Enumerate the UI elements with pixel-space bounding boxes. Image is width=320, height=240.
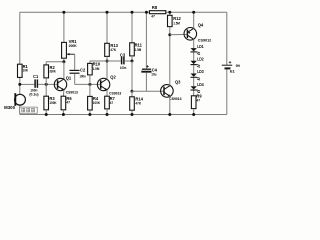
wire right edge lower (battery - to bottom rail) — [226, 69, 228, 114]
resistor R7 — [105, 96, 110, 109]
svg-text:(0.1u): (0.1u) — [29, 91, 39, 96]
wire VR1 wiper down to C2 — [74, 54, 76, 70]
svg-text:R8: R8 — [152, 5, 158, 10]
svg-text:C2: C2 — [80, 68, 86, 73]
svg-text:CS9013: CS9013 — [109, 90, 122, 95]
node C4 top rail — [145, 11, 148, 14]
node mic/R1/C1 junction — [18, 83, 21, 86]
node C3 / R11 — [131, 60, 134, 63]
resistor R3 — [45, 84, 47, 96]
svg-text:Q3: Q3 — [175, 80, 181, 85]
resistor R12 — [169, 12, 171, 15]
wire Q2 collector node to C3 — [90, 60, 121, 62]
node Q2 base / R10 / R4 — [88, 83, 91, 86]
wire top rail left segment — [20, 11, 150, 13]
wire left edge upper (rail to R1) — [19, 12, 21, 64]
wire Q4 emitter to top rail — [193, 12, 195, 28]
node Q3 base / R14 / C4 — [131, 90, 134, 93]
wire right edge upper (to battery +) — [226, 12, 228, 65]
wire Q4 base wire — [170, 33, 188, 35]
wire mic node to C1 — [20, 83, 35, 85]
LED LD2 — [191, 57, 205, 68]
capacitor C2 — [70, 69, 80, 71]
resistor R2 — [45, 62, 47, 65]
resistor R11 — [131, 12, 133, 43]
wire Q3 collector up to R12 node — [169, 35, 171, 86]
svg-text:E1: E1 — [230, 69, 236, 74]
svg-text:LD1: LD1 — [197, 44, 204, 49]
node Q4 emitter top rail — [192, 11, 195, 14]
microphone M300 — [15, 94, 26, 105]
svg-text:1.5M: 1.5M — [93, 66, 100, 71]
resistor R14 — [131, 91, 133, 97]
resistor R6 — [61, 96, 66, 110]
transistor Q3 — [161, 80, 183, 102]
wire LD2-LD3 — [193, 65, 195, 73]
svg-text:100n: 100n — [79, 74, 86, 79]
wire Q1 emitter to R6 — [62, 90, 65, 96]
LED LD3 — [191, 69, 205, 80]
transistor Q1 — [54, 76, 78, 95]
wire Q2 collector to R13 — [106, 61, 108, 79]
resistor R13 — [106, 12, 108, 43]
wire R11 node down to Q3 base node — [131, 61, 133, 91]
wire LD4 to R9 — [193, 91, 195, 96]
svg-text:10u: 10u — [151, 71, 157, 76]
node R11 top rail — [131, 11, 134, 14]
node R6 ground — [62, 113, 65, 116]
wire Q3 base wire — [132, 90, 164, 92]
node R14 ground — [131, 113, 134, 116]
potentiometer VR1 — [63, 12, 65, 42]
resistor R4 — [89, 84, 91, 96]
wire R1 to mic node — [19, 77, 21, 94]
node R7 ground — [106, 113, 109, 116]
svg-text:47: 47 — [151, 14, 155, 19]
svg-text:47K: 47K — [110, 47, 116, 52]
LED LD1 — [191, 44, 205, 55]
wire R2 top to Q1 collector node — [46, 61, 64, 63]
svg-text:CS9013: CS9013 — [169, 96, 182, 101]
svg-text:330K: 330K — [49, 69, 56, 74]
capacitor C4 electrolytic — [145, 12, 147, 68]
resistor R10 — [89, 61, 91, 63]
svg-text:1.5M: 1.5M — [135, 47, 142, 52]
node R13 top rail — [106, 11, 109, 14]
LED LD4 — [191, 82, 205, 93]
svg-text:10K: 10K — [23, 68, 29, 73]
wire C1 to Q1 base — [38, 83, 57, 85]
svg-text:CS9013: CS9013 — [66, 89, 79, 94]
svg-text:100n: 100n — [120, 65, 127, 70]
svg-text:47: 47 — [66, 100, 70, 105]
capacitor C1 — [34, 79, 36, 87]
svg-text:200K: 200K — [69, 43, 77, 48]
capacitor C3 — [121, 57, 123, 65]
label box 电容式 — [20, 107, 37, 113]
wire C3 to R11 node — [125, 60, 132, 62]
svg-text:100K: 100K — [49, 100, 56, 105]
svg-text:Q4: Q4 — [198, 22, 204, 27]
svg-text:C3: C3 — [120, 52, 126, 57]
svg-text:Q1: Q1 — [66, 76, 72, 81]
node Q1 collector / VR1 / R2 — [62, 60, 65, 63]
battery E1 — [222, 61, 241, 74]
node R9 ground — [192, 113, 195, 116]
svg-text:LD2: LD2 — [197, 57, 204, 62]
wire bottom ground rail — [20, 114, 227, 116]
node VR1 top rail — [62, 11, 65, 14]
wire LD1-LD2 — [193, 52, 195, 60]
svg-text:Q2: Q2 — [110, 74, 116, 79]
wire top rail right segment — [166, 11, 227, 13]
svg-text:1.5M: 1.5M — [173, 21, 180, 26]
node R4 ground — [88, 113, 91, 116]
node Q2 collector / R13 / R10 — [106, 60, 109, 63]
resistor R8 — [149, 11, 165, 14]
transistor Q2 — [97, 74, 122, 95]
svg-text:LD4: LD4 — [197, 82, 204, 87]
wire Q2 emitter to R7 — [106, 90, 108, 96]
svg-text:M300: M300 — [4, 105, 16, 110]
svg-text:9V: 9V — [236, 63, 240, 68]
svg-text:47K: 47K — [135, 101, 141, 106]
svg-text:100K: 100K — [93, 100, 100, 105]
wire mic to bottom rail — [19, 105, 21, 115]
node R12 top rail — [168, 11, 171, 14]
svg-text:CS9012: CS9012 — [198, 38, 212, 43]
resistor R9 — [191, 96, 196, 109]
resistor R1 — [18, 64, 23, 77]
node Q3 emitter ground — [168, 113, 171, 116]
wire C2 to Q2 base — [74, 74, 76, 85]
node R3 ground — [45, 113, 48, 116]
svg-text:47: 47 — [110, 100, 114, 105]
node R12 / Q3 collector / Q4 base — [168, 33, 171, 36]
wire LD3-LD4 — [193, 78, 195, 86]
wire Q1 collector — [63, 62, 65, 79]
svg-text:47: 47 — [196, 97, 200, 102]
transistor Q4 (PNP) — [184, 22, 212, 42]
wire Q3 emitter to ground — [169, 96, 171, 114]
svg-text:C1: C1 — [33, 74, 39, 79]
wire Q4 collector to LD1 — [193, 39, 195, 48]
node Q1 base junction (R2/R3) — [45, 83, 48, 86]
svg-text:LD3: LD3 — [197, 69, 204, 74]
